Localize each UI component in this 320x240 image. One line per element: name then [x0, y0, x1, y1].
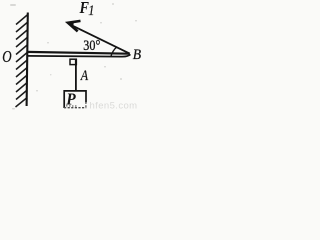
dotted underline under P	[66, 105, 78, 107]
background	[0, 0, 146, 111]
svg-text:P: P	[65, 89, 76, 109]
svg-text:B: B	[133, 47, 142, 64]
collar square at A	[70, 59, 76, 64]
beam top line O to B	[27, 52, 130, 54]
svg-text:A: A	[80, 67, 89, 84]
svg-text:hfen5.com: hfen5.com	[90, 101, 138, 112]
svg-text:30°: 30°	[83, 37, 100, 54]
beam bottom line	[27, 54, 131, 56]
wall hatching	[16, 15, 28, 107]
svg-text:O: O	[2, 48, 12, 66]
svg-text:1: 1	[88, 2, 94, 18]
arrowhead	[68, 21, 81, 32]
force arrow shaft	[72, 25, 130, 53]
weight box P	[64, 91, 86, 108]
box bottom edge (faded/dashed in scan)	[85, 102, 87, 108]
svg-text:F: F	[79, 0, 89, 17]
angle arc	[111, 47, 117, 57]
hanging cord	[75, 65, 77, 91]
scan specks	[10, 3, 137, 110]
wall line	[27, 13, 28, 107]
